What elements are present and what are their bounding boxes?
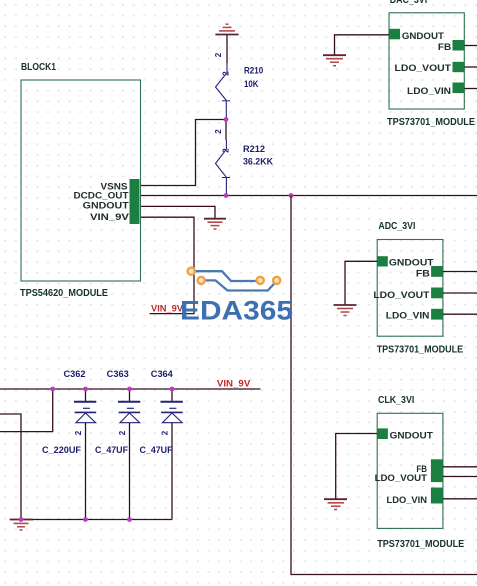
wire bottom ground rail [21,519,172,521]
svg-text:C_47UF: C_47UF [95,445,128,455]
CLK pin GNDOUT [378,428,388,439]
svg-text:GNDOUT: GNDOUT [390,431,434,441]
wire capacitor bus VIN_9V [0,388,261,390]
svg-text:TPS73701_MODULE: TPS73701_MODULE [377,539,464,550]
node junction C363 bottom [127,517,132,522]
ground ADC [334,305,357,316]
wire DAC FB out [464,45,477,47]
svg-text:10K: 10K [244,79,259,89]
svg-text:R212: R212 [243,144,265,154]
wire left stub to ground [0,414,21,520]
module CLK_3VI body [377,413,443,528]
module ADC_3VI body [377,240,443,337]
svg-text:VIN_9V: VIN_9V [151,303,183,313]
wire ADC LDO_VIN out [443,313,477,315]
svg-text:BLOCK1: BLOCK1 [21,62,56,73]
svg-text:DCDC_OUT: DCDC_OUT [74,191,130,201]
wire ADC GNDOUT to ground [345,261,377,304]
svg-text:2: 2 [214,129,223,134]
wire R210 to R212 [225,120,227,141]
svg-text:DAC_3VI: DAC_3VI [390,0,428,6]
wire CLK FB out [443,466,477,468]
svg-text:36.2KK: 36.2KK [243,156,273,166]
svg-text:CLK_3VI: CLK_3VI [378,395,414,406]
node junction C363 top [127,387,132,392]
EDA365 watermark traces [195,271,277,290]
svg-text:2: 2 [222,71,231,76]
svg-text:FB: FB [438,42,452,52]
ground CLK [324,499,347,509]
capacitor C362 [74,389,96,520]
wire ADC LDO_VOUT out [443,292,477,294]
capacitor C364 [161,389,183,520]
ground DAC [323,55,346,65]
ADC pin GNDOUT [378,256,388,266]
wire ADC FB out [443,271,477,273]
svg-text:GNDOUT: GNDOUT [402,31,445,41]
svg-text:TPS73701_MODULE: TPS73701_MODULE [377,345,464,356]
svg-text:2: 2 [118,430,127,435]
wire CLK LDO_VOUT out [443,476,477,478]
svg-text:GNDOUT: GNDOUT [389,258,434,268]
node junction bus/left stub [50,387,55,392]
wire CLK LDO_VIN out [443,498,477,500]
svg-text:2: 2 [214,52,223,57]
svg-text:C364: C364 [151,369,173,379]
svg-text:VIN_9V: VIN_9V [90,212,129,222]
EDA365 watermark pads [188,268,281,284]
module BLOCK1 body [21,80,141,281]
svg-text:LDO_VOUT: LDO_VOUT [375,473,428,483]
ground below BLOCK1 GNDOUT [204,219,226,229]
DAC pin FB [453,40,465,51]
wire vertical bus down right side [291,196,477,575]
wire VIN_9V down to net label [141,217,194,313]
svg-text:FB: FB [416,269,431,279]
DAC pin LDO_VIN [453,83,465,94]
svg-text:C_47UF: C_47UF [140,445,173,455]
capacitor C363 [118,389,140,520]
svg-text:2: 2 [161,430,170,435]
resistor R210 [216,63,231,120]
wire VSNS to R210/R212 junction [141,120,226,186]
svg-text:EDA365: EDA365 [180,296,293,326]
svg-text:TPS73701_MODULE: TPS73701_MODULE [387,117,475,128]
ground (inverted) above R210 [215,24,238,34]
node junction ground rail left [19,517,24,522]
module DAC_3VI body [389,13,464,109]
node junction C362 bottom [83,517,88,522]
wire left stub to bus [0,389,53,432]
svg-text:LDO_VIN: LDO_VIN [387,495,428,505]
svg-text:LDO_VOUT: LDO_VOUT [373,290,430,300]
DAC pin GNDOUT [390,29,401,40]
node junction R212 bottom [224,193,229,198]
CLK pin LDO_VIN [431,488,443,504]
BLOCK1 pin boxes VSNS/DCDC_OUT/GNDOUT/VIN_9V [130,179,140,224]
DAC pin LDO_VOUT [453,62,465,72]
ADC pin LDO_VIN [431,309,443,320]
ADC pin FB [431,266,443,277]
svg-text:LDO_VIN: LDO_VIN [407,86,451,96]
wire ground to R210 [226,35,228,64]
svg-text:2: 2 [74,430,83,435]
node junction main vertical [289,193,294,198]
node junction C362 top [83,387,88,392]
svg-text:ADC_3VI: ADC_3VI [378,221,415,232]
svg-text:LDO_VIN: LDO_VIN [386,310,430,320]
svg-text:GNDOUT: GNDOUT [83,201,130,211]
ground bottom left [10,520,33,531]
wire DCDC_OUT horizontal net [141,195,477,197]
wire DAC LDO_VOUT out [464,66,477,68]
wire DAC LDO_VIN out [464,88,477,90]
svg-text:C362: C362 [64,369,86,379]
node junction C364 top [170,387,175,392]
node junction R210/R212/VSNS [224,117,229,122]
svg-text:LDO_VOUT: LDO_VOUT [395,63,452,73]
svg-text:R210: R210 [244,66,263,76]
CLK pin FB [431,459,443,482]
wire DAC GNDOUT to ground [335,35,390,55]
wire GNDOUT to ground [141,206,215,218]
ADC pin LDO_VOUT [431,288,443,299]
wire CLK GNDOUT to ground [336,434,378,499]
svg-text:C_220UF: C_220UF [42,445,81,455]
resistor R212 [216,140,231,196]
svg-text:TPS54620_MODULE: TPS54620_MODULE [20,288,108,299]
svg-text:VIN_9V: VIN_9V [217,379,250,389]
svg-text:2: 2 [222,148,231,153]
svg-text:C363: C363 [107,369,129,379]
